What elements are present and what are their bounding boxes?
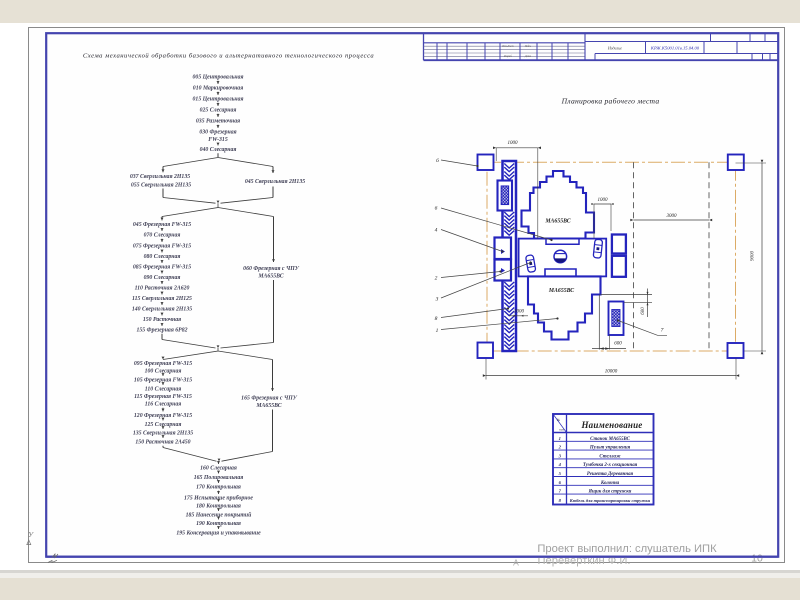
cabinet squares upper [612, 235, 626, 254]
svg-text:010 Маркировочная: 010 Маркировочная [193, 86, 243, 92]
svg-text:Изделие: Изделие [607, 45, 622, 50]
svg-text:поз: поз [559, 428, 564, 432]
svg-text:080 Слесарная: 080 Слесарная [144, 254, 181, 260]
top beige strip [0, 0, 800, 23]
svg-text:3000: 3000 [667, 214, 678, 219]
svg-text:165 Фрезерная с ЧПУ: 165 Фрезерная с ЧПУ [241, 396, 298, 402]
svg-text:045 Фрезерная FW-315: 045 Фрезерная FW-315 [133, 222, 191, 228]
svg-text:У: У [28, 530, 34, 539]
svg-text:115 Фрезерная FW-315: 115 Фрезерная FW-315 [134, 394, 192, 400]
frame tick marks [48, 554, 58, 563]
svg-text:6: 6 [435, 206, 438, 212]
svg-text:Тумбочка 2-х секционная: Тумбочка 2-х секционная [583, 463, 638, 468]
operator area rectangle [519, 239, 607, 277]
svg-text:3: 3 [435, 297, 439, 303]
leader 6 [435, 206, 553, 242]
svg-text:115 Сверлильная 2Н125: 115 Сверлильная 2Н125 [132, 296, 192, 302]
svg-text:Проект выполнил: слушатель ИПК: Проект выполнил: слушатель ИПК [537, 543, 717, 555]
svg-text:7: 7 [661, 328, 664, 334]
svg-text:170 Контрольная: 170 Контрольная [196, 485, 241, 491]
svg-text:030 Фрезерная: 030 Фрезерная [199, 130, 236, 136]
machine MA655VS lower footprint [528, 276, 601, 339]
title block stamp [424, 34, 779, 61]
svg-text:040 Слесарная: 040 Слесарная [200, 147, 237, 153]
dimension 3000 between columns [630, 214, 712, 222]
svg-text:116 Слесарная: 116 Слесарная [145, 402, 182, 408]
svg-text:МА655ВС: МА655ВС [544, 219, 570, 225]
svg-text:075 Фрезерная FW-315: 075 Фрезерная FW-315 [133, 244, 191, 250]
svg-text:8: 8 [435, 316, 438, 322]
svg-text:9000: 9000 [751, 251, 756, 262]
chuck half-filled circle [554, 250, 567, 263]
margin mark triangle [27, 540, 31, 545]
svg-text:060 Фрезерная с ЧПУ: 060 Фрезерная с ЧПУ [243, 266, 300, 272]
svg-text:045 Сверлильная 2Н135: 045 Сверлильная 2Н135 [245, 179, 305, 185]
leader 6 [436, 158, 478, 167]
svg-text:110 Слесарная: 110 Слесарная [145, 387, 182, 393]
chip box (item 7) [609, 302, 624, 336]
svg-text:Кюбель для транспортировки стр: Кюбель для транспортировки стружки [569, 498, 651, 503]
svg-text:190 Контрольная: 190 Контрольная [196, 521, 241, 527]
dimension 1000 top [493, 141, 541, 239]
leader 8 [435, 307, 509, 322]
svg-text:015 Центровальная: 015 Центровальная [193, 97, 244, 103]
svg-text:037 Сверлильная 2Н135: 037 Сверлильная 2Н135 [130, 174, 190, 180]
leader 7 [617, 319, 667, 335]
svg-text:МА655ВС: МА655ВС [548, 288, 574, 294]
svg-text:Подп.: Подп. [524, 45, 532, 48]
station box lower (item 2) [495, 260, 512, 281]
section 3 split [163, 348, 273, 360]
dimension 600 bottom (band to chip box) [592, 295, 626, 350]
svg-text:Решетка Деревянная: Решетка Деревянная [587, 472, 634, 477]
machine bottom tab inside operator area [546, 239, 579, 245]
leader 1 [436, 317, 559, 334]
svg-text:10: 10 [751, 553, 763, 565]
svg-text:Наименование: Наименование [580, 420, 642, 430]
svg-text:2: 2 [435, 276, 438, 282]
svg-text:3000: 3000 [514, 310, 525, 315]
svg-text:140 Сверлильная 2Н135: 140 Сверлильная 2Н135 [132, 307, 192, 313]
conveyor band [503, 161, 517, 351]
svg-text:110 Расточная 2А620: 110 Расточная 2А620 [135, 286, 190, 292]
svg-text:Пульт управления: Пульт управления [589, 446, 631, 451]
svg-text:155 Фрезерная 6Р82: 155 Фрезерная 6Р82 [137, 328, 188, 334]
column square bottom-right [728, 343, 744, 358]
dimension 3000 band gap [509, 310, 528, 317]
sheet inner blue frame [46, 33, 778, 557]
lower machine top tab [545, 269, 576, 276]
svg-text:Дата: Дата [524, 55, 532, 58]
stool left (item 3) [525, 255, 535, 273]
column square top-right [728, 155, 744, 171]
svg-text:МА655ВС: МА655ВС [257, 274, 283, 280]
stool right [593, 239, 602, 258]
svg-text:150 Расточная: 150 Расточная [143, 317, 181, 323]
svg-text:600: 600 [641, 307, 646, 315]
svg-text:Схема механической обработки б: Схема механической обработки базового и … [83, 53, 374, 60]
bottom beige strip [0, 578, 800, 600]
svg-text:МА655ВС: МА655ВС [255, 403, 281, 409]
svg-text:025 Слесарная: 025 Слесарная [200, 108, 237, 114]
svg-text:Стеллаж: Стеллаж [599, 454, 621, 459]
cabinet squares lower [612, 256, 626, 277]
svg-text:А: А [513, 558, 519, 568]
svg-text:095 Фрезерная FW-315: 095 Фрезерная FW-315 [134, 361, 192, 367]
column square bottom-left [478, 343, 494, 359]
section 2 split [162, 203, 274, 216]
svg-text:195 Консервация и упаковывание: 195 Консервация и упаковывание [176, 531, 261, 537]
branch A split [163, 158, 273, 167]
conveyor chevrons [504, 164, 514, 350]
column grid dashed line left [633, 162, 635, 351]
svg-text:Колонна: Колонна [600, 481, 620, 486]
svg-text:1000: 1000 [508, 141, 519, 146]
svg-text:150 Расточная 2А450: 150 Расточная 2А450 [135, 440, 190, 446]
bottom gray divider line [0, 570, 800, 573]
plan view group [478, 155, 744, 359]
svg-text:085 Фрезерная FW-315: 085 Фрезерная FW-315 [133, 265, 191, 271]
frame bottom restroke over footer [46, 556, 778, 558]
svg-text:Разраб.: Разраб. [503, 55, 513, 58]
dimension 10000 bottom [483, 359, 739, 380]
svg-text:FW-315: FW-315 [208, 137, 228, 143]
svg-text:Изм.Лист: Изм.Лист [501, 45, 513, 48]
column square top-left [478, 155, 494, 171]
svg-text:1000: 1000 [598, 198, 609, 203]
work area outline (dash-dot) [487, 162, 736, 351]
leader 2 [435, 270, 502, 281]
leader 3 [435, 261, 532, 302]
svg-text:055 Сверлильная 2Н135: 055 Сверлильная 2Н135 [131, 183, 191, 189]
column grid dashed line right [708, 162, 710, 351]
svg-text:10000: 10000 [605, 369, 618, 374]
station box upper (item 4) [495, 238, 512, 260]
svg-text:600: 600 [614, 342, 622, 347]
dimension 9000 right [736, 160, 767, 354]
leader 4 [435, 227, 504, 253]
svg-text:1: 1 [559, 436, 561, 441]
svg-text:4: 4 [435, 227, 438, 234]
bottom light strip [0, 573, 800, 578]
svg-text:035 Разметочная: 035 Разметочная [196, 119, 240, 125]
band cartridge (item 5 zone) [498, 181, 513, 211]
dimension 1000 right of machine [591, 198, 613, 238]
dimension 600 vertical right [601, 289, 653, 318]
svg-text:КРЖ.К5001.01в.15.04.00: КРЖ.К5001.01в.15.04.00 [650, 46, 700, 51]
svg-text:070 Слесарная: 070 Слесарная [144, 233, 181, 239]
process flowchart [130, 75, 305, 537]
svg-text:090 Слесарная: 090 Слесарная [144, 275, 181, 281]
svg-text:Станок МА655ВС: Станок МА655ВС [590, 437, 630, 442]
svg-text:Ящик для стружки: Ящик для стружки [588, 490, 632, 495]
machine MA655VS upper footprint [522, 171, 595, 239]
parts list table [553, 414, 654, 505]
svg-text:005 Центровальная: 005 Центровальная [193, 75, 244, 81]
svg-text:1: 1 [436, 328, 439, 334]
svg-text:6: 6 [436, 158, 439, 164]
flow connector segments [162, 81, 274, 529]
svg-text:Планировка рабочего места: Планировка рабочего места [561, 97, 660, 106]
